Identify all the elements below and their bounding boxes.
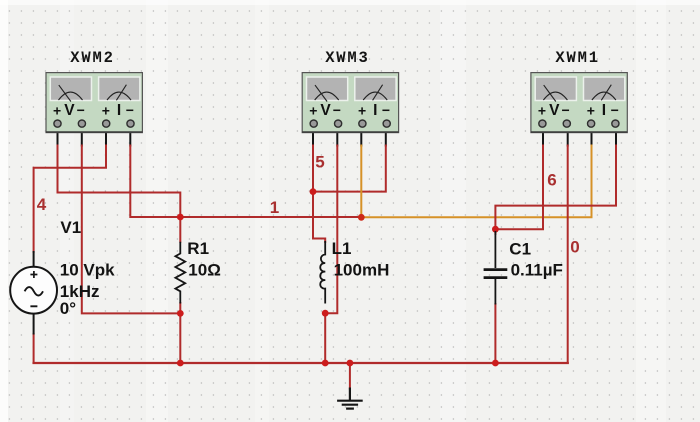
wire XWM2 +V to node 1 <box>58 146 181 217</box>
wire ground stem <box>349 363 351 389</box>
wire XWM1 I- to node 6 <box>495 146 616 229</box>
wire XWM1 terminal stubs (black) <box>543 120 616 146</box>
inductor L1 <box>320 241 325 304</box>
wire XWM1 +V to node 6 <box>497 146 544 230</box>
junction rail at L1 <box>322 360 329 367</box>
wire L1 bottom to ground rail <box>324 313 326 363</box>
svg-text:C1: C1 <box>509 240 531 259</box>
ground <box>337 388 363 409</box>
wire C1 bottom to ground rail <box>494 304 496 363</box>
wire node 6 to C1 top <box>494 229 496 234</box>
junction L1 bottom <box>322 310 329 317</box>
svg-text:1: 1 <box>270 198 279 217</box>
junction node 5 <box>310 188 317 195</box>
svg-text:XWM1: XWM1 <box>555 49 599 67</box>
wattmeter XWM2 <box>46 73 142 133</box>
svg-text:4: 4 <box>37 195 47 214</box>
wire net 1 red segment <box>180 216 361 218</box>
svg-text:0: 0 <box>570 238 579 257</box>
wire net 0: XWM1 V- to ground rail <box>567 146 569 364</box>
svg-text:5: 5 <box>315 152 324 171</box>
junction node 1 at orange transition <box>358 214 365 221</box>
svg-text:6: 6 <box>547 170 556 189</box>
junction rail at C1 <box>492 360 499 367</box>
wattmeter XWM1 <box>531 73 627 133</box>
resistor R1 <box>175 242 185 304</box>
wire XWM3 I- to node 5 <box>314 146 386 192</box>
svg-text:V1: V1 <box>60 218 81 237</box>
junction rail at R1 <box>177 360 184 367</box>
wire XWM3 +I orange to node 1 <box>360 146 362 217</box>
wire node 1 to R1 top <box>179 217 181 242</box>
svg-text:10Ω: 10Ω <box>188 261 221 280</box>
wire XWM2 I- to node 1 <box>130 146 179 218</box>
source V1 <box>10 251 57 335</box>
wire XWM2 terminal stubs (black) <box>58 120 131 146</box>
junction R1 bottom <box>177 310 184 317</box>
wire net 1 orange segment to XWM1 +I <box>361 146 591 218</box>
wire XWM3 +V to node 5 and L1 top <box>313 146 325 243</box>
junction node 1 above R1 <box>177 214 184 221</box>
svg-text:0.11µF: 0.11µF <box>511 261 563 280</box>
wire XWM3 V- to L1 bottom <box>326 146 337 314</box>
svg-text:R1: R1 <box>187 239 209 258</box>
svg-text:100mH: 100mH <box>334 261 390 280</box>
svg-text:XWM2: XWM2 <box>70 49 114 67</box>
svg-text:10 Vpk: 10 Vpk <box>60 261 115 280</box>
wire ground rail <box>34 362 568 364</box>
svg-text:0°: 0° <box>60 299 76 318</box>
junction rail at ground <box>347 360 354 367</box>
wire R1 bottom to ground rail <box>179 303 181 363</box>
wire net 4: XWM2 +I to V1 plus <box>34 146 106 253</box>
wire XWM3 terminal stubs (black) <box>313 120 386 146</box>
svg-text:XWM3: XWM3 <box>325 49 369 67</box>
wire V1 minus to ground rail <box>33 334 35 363</box>
capacitor C1 <box>484 231 508 305</box>
wattmeter XWM3 <box>302 73 398 133</box>
wire XWM2 V- to R1 bottom <box>82 146 179 314</box>
junction node 6 <box>492 226 499 233</box>
svg-text:L1: L1 <box>332 239 352 258</box>
